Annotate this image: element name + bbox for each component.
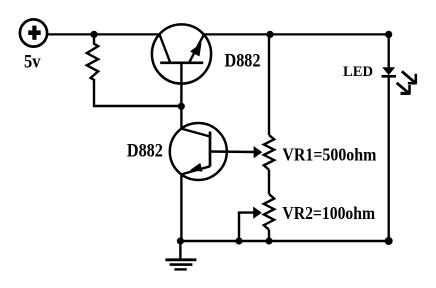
resistor R1 bbox=[87, 34, 98, 79]
VR2 wiper arrowhead bbox=[253, 207, 262, 219]
transistor Q2 emitter lead bbox=[181, 166, 210, 174]
wire VR2 bottom to rail bbox=[268, 230, 270, 241]
svg-text:D882: D882 bbox=[225, 51, 261, 72]
svg-text:VR1=500ohm: VR1=500ohm bbox=[282, 145, 376, 165]
junction dot VR2 wiper bbox=[235, 237, 242, 244]
junction dot VR1 branch bbox=[266, 31, 273, 38]
LED cathode bar bbox=[382, 75, 397, 78]
power source V1 circle bbox=[20, 19, 47, 46]
wire Q2 emitter down to bottom rail bbox=[180, 174, 182, 241]
LED emission arrow 2 bbox=[397, 83, 411, 94]
junction dot VR2 bottom bbox=[265, 237, 272, 244]
power source plus sign bbox=[28, 26, 41, 40]
junction dot resistor top bbox=[90, 31, 97, 38]
ground symbol bbox=[165, 241, 196, 269]
wire VR1 bottom to VR2 top bbox=[268, 170, 270, 194]
wire VR1 branch down bbox=[268, 34, 270, 135]
junction dot bottom right corner bbox=[385, 237, 393, 245]
wire resistor bottom to junction node bbox=[94, 79, 181, 106]
wire LED to bottom rail bbox=[388, 76, 390, 241]
LED emission arrow 1 bbox=[402, 71, 417, 83]
svg-text:5v: 5v bbox=[24, 51, 41, 72]
wire node B to Q2 collector bbox=[180, 106, 182, 129]
transistor Q1 emitter arrow bbox=[190, 43, 202, 57]
transistor Q2 circle bbox=[170, 123, 227, 180]
junction dot node B (Q1 base / Q2 collector) bbox=[178, 103, 185, 110]
potentiometer VR2 bbox=[264, 194, 274, 230]
transistor Q2 emitter arrow bbox=[190, 163, 203, 172]
transistor Q1 emitter lead bbox=[189, 35, 204, 63]
junction dot ground bbox=[177, 237, 184, 244]
svg-text:VR2=100ohm: VR2=100ohm bbox=[282, 203, 375, 223]
wire right rail top to LED bbox=[388, 34, 390, 67]
svg-text:LED: LED bbox=[343, 64, 373, 80]
svg-text:D882: D882 bbox=[127, 141, 163, 162]
transistor Q1 base wire down bbox=[180, 62, 182, 106]
transistor Q1 circle bbox=[152, 24, 211, 83]
VR1 wiper arrowhead bbox=[254, 146, 263, 158]
bottom rail wire bbox=[180, 240, 388, 242]
potentiometer VR1 bbox=[264, 135, 274, 170]
VR2 wiper wire bbox=[239, 213, 254, 241]
transistor Q2 collector lead bbox=[181, 129, 210, 137]
wire from V1 to Q1 collector bbox=[47, 33, 159, 35]
transistor Q1 base bar bbox=[160, 61, 203, 64]
junction dot top right corner bbox=[385, 31, 392, 38]
transistor Q2 base wire to VR1 wiper bbox=[210, 150, 254, 153]
wire Q1 emitter to right rail bbox=[204, 33, 389, 35]
transistor Q1 collector lead bbox=[160, 34, 171, 62]
LED D1 triangle bbox=[382, 67, 395, 75]
transistor Q2 base bar bbox=[209, 132, 212, 167]
